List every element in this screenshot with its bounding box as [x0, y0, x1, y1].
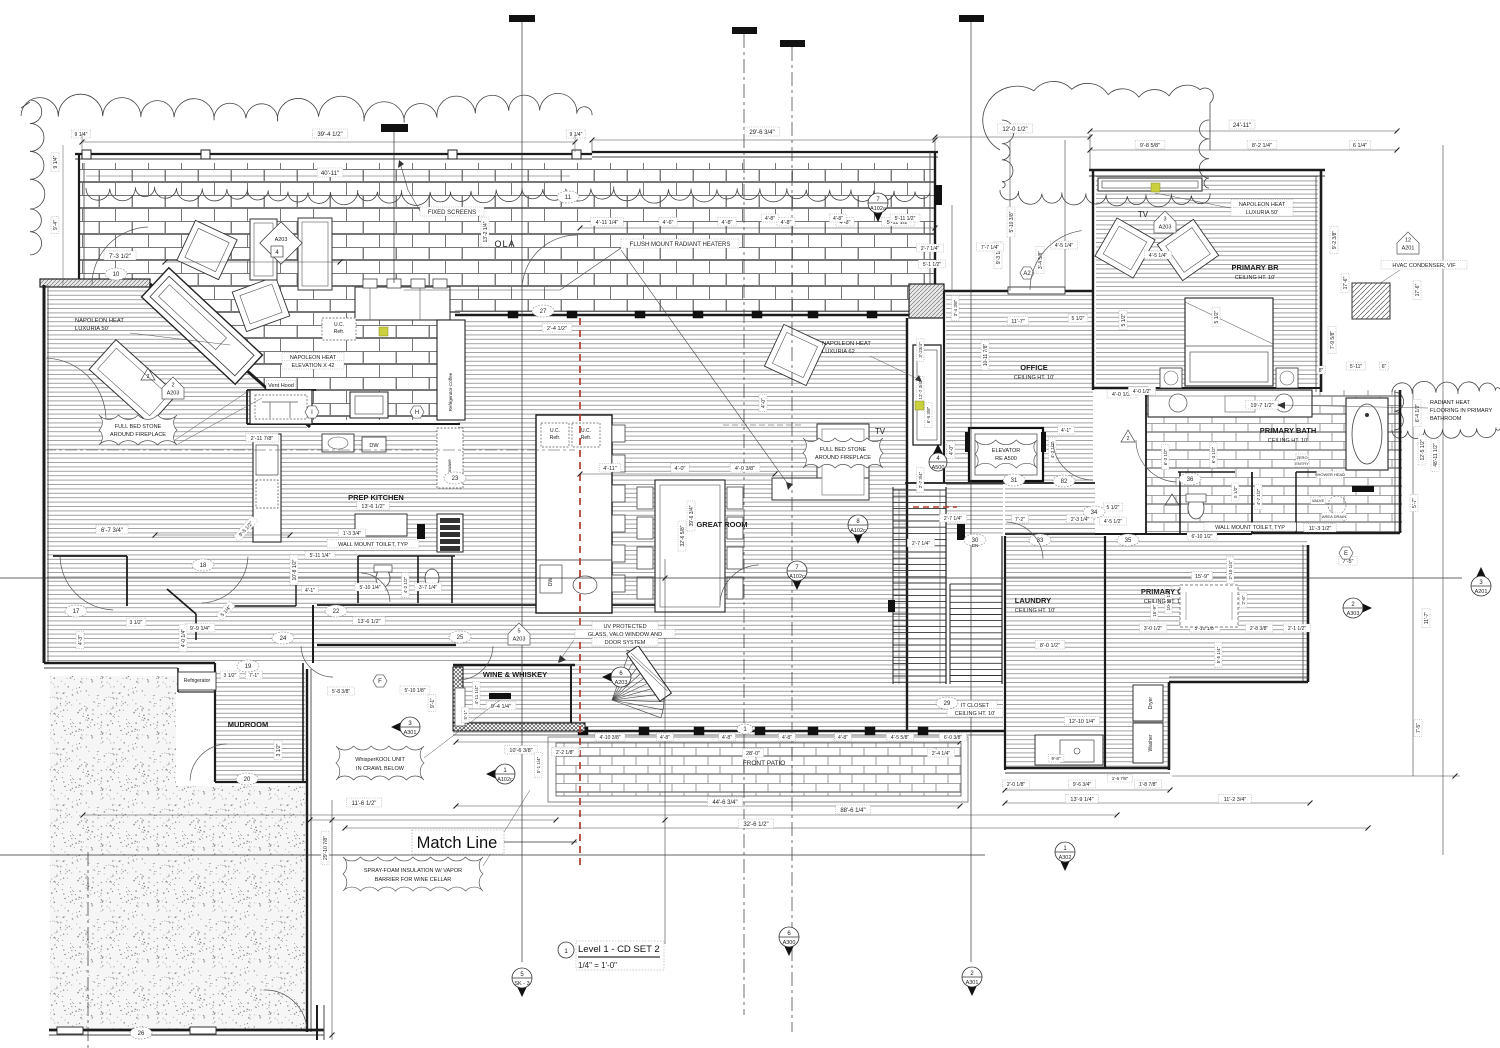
great room south window wall	[453, 730, 1005, 733]
closet south wall	[1169, 681, 1308, 684]
svg-text:4'-3": 4'-3"	[78, 635, 84, 645]
svg-text:FRONT PATIO: FRONT PATIO	[743, 760, 786, 767]
left wing west wall	[43, 285, 46, 663]
section cut bar x394	[381, 124, 408, 132]
svg-text:A300: A300	[783, 940, 796, 946]
grid line y855	[0, 854, 985, 856]
svg-text:7'-3 1/2": 7'-3 1/2"	[109, 254, 131, 260]
cloud full bed stone greatroom	[803, 438, 883, 468]
svg-text:2'-7 1/4": 2'-7 1/4"	[921, 246, 940, 252]
svg-text:3'-4 5/8": 3'-4 5/8"	[1038, 251, 1044, 270]
note fixed screens	[420, 207, 484, 216]
left wing closet walls	[53, 555, 127, 557]
toilets left wing	[376, 569, 390, 587]
great room east wall	[906, 318, 908, 731]
svg-text:3 1/2": 3 1/2"	[276, 743, 282, 756]
bed	[1185, 298, 1273, 386]
primary bedroom chairs	[1095, 218, 1155, 278]
svg-text:9'-9 1/4": 9'-9 1/4"	[190, 626, 210, 632]
OLA lounge chair 1	[177, 220, 237, 279]
svg-text:5 1/2": 5 1/2"	[1233, 486, 1238, 498]
svg-text:1/4" = 1'-0": 1/4" = 1'-0"	[578, 961, 617, 970]
svg-text:A301: A301	[404, 730, 417, 736]
left wing south wall	[44, 662, 215, 665]
svg-text:RE A500: RE A500	[995, 456, 1017, 462]
svg-text:6'-0 3/8": 6'-0 3/8"	[944, 735, 963, 741]
tag pentagon A203 wine	[508, 623, 530, 645]
svg-text:WINE & WHISKEY: WINE & WHISKEY	[483, 670, 547, 679]
long dims bottom	[456, 805, 960, 807]
OLA brick patio floor	[78, 163, 935, 420]
bath vanity	[1148, 390, 1312, 417]
south wall hatched band	[453, 725, 583, 732]
svg-text:3'-23/4": 3'-23/4"	[918, 342, 923, 358]
fireplace diagonal wall	[150, 284, 310, 427]
svg-text:RADIANT HEAT: RADIANT HEAT	[1430, 400, 1470, 406]
svg-text:29: 29	[944, 701, 951, 707]
svg-text:ENTRY: ENTRY	[1295, 461, 1309, 466]
svg-text:31: 31	[1011, 478, 1018, 484]
dims greatroom center	[599, 464, 620, 473]
svg-text:BATHROOM: BATHROOM	[1430, 416, 1462, 422]
front wall left segment	[317, 644, 456, 646]
wine room walls	[453, 664, 575, 666]
svg-text:15'-9": 15'-9"	[1195, 574, 1209, 580]
svg-text:LUXURIA 62: LUXURIA 62	[822, 349, 855, 355]
svg-text:OFFICE: OFFICE	[1020, 363, 1048, 372]
cloud full bed stone left	[99, 415, 177, 445]
hearth bench (rotated)	[89, 340, 177, 425]
door arc OLA east	[1030, 231, 1082, 290]
svg-text:8'-2 1/4": 8'-2 1/4"	[1252, 143, 1272, 149]
laundry/closet divider wall	[1104, 536, 1106, 768]
tag ovals	[105, 268, 127, 280]
sofa	[817, 424, 869, 500]
wine fan door	[612, 700, 661, 718]
office striped floor	[946, 293, 1093, 481]
svg-text:A303: A303	[1347, 611, 1360, 617]
dims hall	[327, 687, 354, 695]
vert dim line x332	[331, 800, 333, 1040]
door arc bath entry	[1136, 440, 1177, 482]
svg-text:CEILING HT. 10': CEILING HT. 10'	[1144, 599, 1184, 605]
bath west wall	[1145, 390, 1147, 534]
washer dryer	[1133, 685, 1163, 721]
svg-text:6'-3 1/2": 6'-3 1/2"	[1211, 446, 1216, 463]
dash-dot line y450 left	[44, 449, 575, 451]
svg-text:Vent Hood: Vent Hood	[268, 383, 294, 389]
svg-text:7'-9 5/8": 7'-9 5/8"	[1330, 331, 1336, 350]
front patio outer border	[548, 737, 968, 802]
svg-text:FIXED SCREENS: FIXED SCREENS	[428, 210, 476, 216]
laundry sink counter	[1035, 735, 1103, 765]
svg-text:GLASS, VALO WINDOW AND: GLASS, VALO WINDOW AND	[588, 632, 662, 638]
garage south wall	[49, 1029, 324, 1032]
svg-text:A102a: A102a	[870, 206, 887, 212]
svg-text:NAPOLEON HEAT: NAPOLEON HEAT	[290, 355, 337, 361]
svg-text:4'-0 3/8": 4'-0 3/8"	[735, 466, 755, 472]
fireplace left wing (rotated)	[142, 268, 263, 385]
svg-text:2: 2	[147, 374, 150, 380]
primary bath tile floor	[1146, 390, 1402, 532]
laundry south wall	[1005, 767, 1170, 770]
fridge/tall cabinet column	[437, 320, 465, 420]
tag hexagon A203 fan	[602, 669, 619, 685]
svg-text:NAPOLEON HEAT: NAPOLEON HEAT	[1239, 202, 1286, 208]
tag marker 5/SK-3	[514, 980, 530, 997]
svg-text:2'-7 1/4": 2'-7 1/4"	[912, 541, 931, 547]
svg-text:5'-10 1/4": 5'-10 1/4"	[359, 585, 380, 591]
svg-text:5'-5 1/4": 5'-5 1/4"	[1216, 646, 1221, 663]
dims left wing	[155, 534, 290, 536]
svg-text:19'-7 1/2": 19'-7 1/2"	[1250, 403, 1273, 409]
svg-text:H: H	[415, 410, 419, 416]
hall north wall	[317, 604, 660, 606]
svg-text:TV: TV	[875, 427, 886, 436]
svg-text:CEILING HT. 10': CEILING HT. 10'	[1014, 375, 1054, 381]
svg-text:6'-10 1/2": 6'-10 1/2"	[1191, 534, 1212, 540]
dash line y425 fireplace	[723, 424, 803, 426]
dims kitchen area	[246, 434, 279, 443]
svg-text:2'-3 1/4": 2'-3 1/4"	[1071, 517, 1090, 523]
door arc OLA right	[522, 235, 577, 288]
dims primary br	[1119, 310, 1127, 330]
svg-text:17'-6": 17'-6"	[1415, 283, 1421, 296]
svg-text:FLOORING IN PRIMARY: FLOORING IN PRIMARY	[1430, 408, 1493, 414]
svg-text:Match Line: Match Line	[417, 834, 498, 852]
svg-text:U.C.: U.C.	[581, 428, 591, 434]
kitchen north wall / counters	[247, 389, 316, 391]
dims toilet rooms	[305, 551, 335, 559]
dims south row	[456, 741, 960, 743]
svg-text:SHOWER HEAD: SHOWER HEAD	[1315, 472, 1345, 477]
dims laundry bottom	[1048, 755, 1064, 763]
dims right edge verticals	[1442, 145, 1444, 855]
svg-text:24'-11": 24'-11"	[1233, 123, 1251, 129]
svg-text:MUDROOM: MUDROOM	[228, 720, 268, 729]
svg-text:4'-6": 4'-6"	[663, 220, 674, 226]
nightstands	[1160, 368, 1182, 388]
svg-text:9'-1": 9'-1"	[430, 698, 436, 708]
svg-text:5 1/2": 5 1/2"	[1214, 310, 1220, 323]
stair rails	[898, 490, 900, 684]
dim 29-6	[592, 139, 935, 141]
note flush mount radiant heaters	[621, 239, 739, 248]
svg-text:HVAC CONDENSER, VIF: HVAC CONDENSER, VIF	[1392, 263, 1456, 269]
svg-text:PREP KITCHEN: PREP KITCHEN	[348, 493, 404, 502]
svg-text:48'-11 1/2": 48'-11 1/2"	[1433, 443, 1439, 467]
svg-text:4'-1": 4'-1"	[1061, 428, 1071, 434]
svg-text:82: 82	[1061, 479, 1068, 485]
cloud whisperkool	[336, 746, 424, 780]
svg-text:F: F	[378, 679, 382, 685]
svg-text:2'-11 7/8": 2'-11 7/8"	[251, 436, 274, 442]
svg-text:4'-8": 4'-8"	[833, 216, 843, 222]
shower walls	[1295, 472, 1297, 533]
svg-text:Refr.: Refr.	[550, 435, 561, 441]
toilet room walls	[358, 555, 455, 557]
dining table	[655, 480, 725, 612]
svg-text:3: 3	[1163, 217, 1166, 223]
door arc laundry	[1006, 522, 1043, 559]
svg-text:2'-1 1/2": 2'-1 1/2"	[1288, 626, 1307, 632]
red dash segment stairs	[913, 506, 957, 508]
svg-text:4'-8": 4'-8"	[782, 735, 792, 741]
elevator door bars	[1041, 432, 1046, 452]
svg-text:2: 2	[171, 383, 174, 389]
svg-text:2'-6": 2'-6"	[1241, 595, 1246, 604]
svg-text:26: 26	[138, 1031, 145, 1037]
svg-text:35: 35	[1125, 538, 1132, 544]
svg-text:Refr.: Refr.	[581, 435, 592, 441]
svg-text:32'-6 5/8": 32'-6 5/8"	[680, 525, 686, 546]
svg-text:3'-4 3/8": 3'-4 3/8"	[953, 299, 958, 316]
yellow mark fireplace	[379, 327, 388, 336]
svg-text:AROUND FIREPLACE: AROUND FIREPLACE	[815, 455, 871, 461]
svg-text:5'-1": 5'-1"	[463, 710, 468, 719]
misc arcs left wing	[60, 557, 113, 610]
svg-text:12: 12	[1405, 238, 1411, 244]
svg-text:A301: A301	[966, 980, 979, 986]
svg-text:25: 25	[457, 635, 464, 641]
svg-text:4'-8": 4'-8"	[722, 220, 733, 226]
svg-text:A302: A302	[1059, 855, 1072, 861]
note napoleon heat luxuria 50 (BR)	[1231, 200, 1293, 209]
svg-text:8'-0 1/2": 8'-0 1/2"	[1040, 643, 1060, 649]
screen wall top (patio north)	[75, 153, 592, 155]
tag marker 3/A301	[391, 719, 408, 735]
svg-text:VALVE: VALVE	[1312, 498, 1325, 503]
svg-text:3 1/2": 3 1/2"	[224, 673, 237, 679]
OLA coffee table	[250, 219, 277, 280]
svg-text:A102c: A102c	[850, 528, 866, 534]
svg-text:2: 2	[1127, 436, 1130, 442]
kitchen sink small	[322, 434, 354, 452]
svg-text:NAPOLEON HEAT: NAPOLEON HEAT	[822, 341, 871, 347]
laundry striped floor	[1006, 536, 1105, 768]
svg-text:LUXURIA 50': LUXURIA 50'	[1246, 210, 1278, 216]
svg-text:3 1/2": 3 1/2"	[130, 620, 143, 626]
svg-text:9'-6 3/4": 9'-6 3/4"	[1073, 782, 1092, 788]
dim row OLA right	[580, 227, 935, 229]
svg-text:5 1/2": 5 1/2"	[1072, 316, 1085, 322]
svg-text:39'-4 1/2": 39'-4 1/2"	[317, 132, 342, 138]
TV niche	[1098, 178, 1202, 191]
A203 tag 4 (OLA)	[260, 222, 302, 264]
OLA bar counter	[355, 287, 450, 320]
kitchen sink counter	[350, 392, 388, 418]
svg-text:FULL BED STONE: FULL BED STONE	[115, 424, 162, 430]
svg-text:DW: DW	[548, 578, 554, 587]
yellow mark BR	[1151, 183, 1160, 192]
svg-text:12'-0 1/2": 12'-0 1/2"	[1002, 127, 1027, 133]
svg-text:Refrigerator-Coffee: Refrigerator-Coffee	[448, 372, 453, 411]
hall west wall	[943, 318, 945, 483]
closet island dashed	[1180, 585, 1238, 627]
svg-text:9'-2 3/8": 9'-2 3/8"	[1332, 231, 1338, 250]
svg-text:4'-5 5/8": 4'-5 5/8"	[891, 735, 910, 741]
bath south wall	[1252, 532, 1400, 535]
tree canopy blob top right	[983, 81, 1213, 150]
svg-text:9 1/4": 9 1/4"	[75, 132, 88, 138]
svg-text:27: 27	[540, 309, 547, 315]
svg-text:4'-7 1/2": 4'-7 1/2"	[1256, 488, 1261, 505]
svg-text:A2: A2	[1023, 271, 1031, 277]
svg-text:4'-1": 4'-1"	[305, 588, 315, 594]
left wing striped floor	[47, 285, 458, 663]
shower bench black	[1352, 486, 1374, 492]
svg-text:7'-5": 7'-5"	[1343, 559, 1354, 565]
primary bedroom walls	[1089, 169, 1325, 172]
dim top patio	[82, 141, 575, 143]
primary bedroom striped floor	[1096, 174, 1318, 388]
svg-text:Refrigerator: Refrigerator	[184, 678, 211, 684]
dims BR bottom	[1128, 387, 1155, 395]
svg-text:IT CLOSET: IT CLOSET	[961, 703, 990, 709]
svg-text:A203: A203	[615, 680, 628, 686]
tag marker 2/A303	[1355, 600, 1372, 616]
tag hexagons	[305, 406, 319, 418]
wine rack bar	[489, 693, 511, 699]
left wing north wall	[40, 279, 150, 287]
svg-text:4'-0": 4'-0"	[675, 466, 686, 472]
svg-text:4'-5 1/4": 4'-5 1/4"	[1055, 243, 1074, 249]
svg-text:10: 10	[113, 272, 120, 278]
svg-text:3'-7 1/4": 3'-7 1/4"	[419, 585, 438, 591]
svg-text:7'-2": 7'-2"	[1015, 517, 1025, 523]
svg-text:11'-7": 11'-7"	[1424, 612, 1430, 625]
svg-text:DOOR SYSTEM: DOOR SYSTEM	[605, 640, 646, 646]
svg-text:WALL MOUNT TOILET, TYP: WALL MOUNT TOILET, TYP	[1215, 525, 1285, 531]
svg-text:10'-8 1/2": 10'-8 1/2"	[292, 559, 298, 580]
door arc office	[1053, 441, 1093, 480]
shower drain	[1328, 496, 1346, 514]
svg-text:IN CRAWL BELOW: IN CRAWL BELOW	[356, 766, 405, 772]
svg-text:A203: A203	[275, 237, 288, 243]
svg-text:6'-4 1/2": 6'-4 1/2"	[1415, 404, 1421, 423]
vert dim line x665	[664, 559, 666, 944]
svg-text:A102c: A102c	[497, 777, 513, 783]
svg-text:88'-6 1/4": 88'-6 1/4"	[840, 808, 865, 814]
screen wall posts	[82, 150, 91, 159]
svg-text:CEILING HT. 10': CEILING HT. 10'	[955, 711, 995, 717]
note uv protected	[592, 622, 658, 631]
svg-text:NAPOLEON HEAT: NAPOLEON HEAT	[75, 318, 124, 324]
svg-text:5'-11 1/4": 5'-11 1/4"	[310, 553, 331, 559]
svg-text:6 1/4": 6 1/4"	[1353, 143, 1367, 149]
svg-text:4'-5 1/4": 4'-5 1/4"	[1149, 253, 1168, 259]
svg-text:9'-8 5/8": 9'-8 5/8"	[1140, 143, 1160, 149]
svg-text:A201: A201	[1475, 589, 1488, 595]
laundry west wall	[1004, 536, 1006, 770]
title: level 1	[558, 942, 574, 958]
tag marker 8/A102c	[850, 527, 866, 544]
svg-text:ELEVATOR: ELEVATOR	[992, 448, 1020, 454]
svg-text:PRIMARY BATH: PRIMARY BATH	[1260, 426, 1317, 435]
svg-text:23: 23	[452, 476, 459, 482]
svg-text:Refr.: Refr.	[334, 329, 345, 335]
svg-text:17: 17	[73, 609, 80, 615]
tag pentagon A203 prep	[162, 377, 184, 399]
svg-text:FLUSH MOUNT RADIANT HEATERS: FLUSH MOUNT RADIANT HEATERS	[630, 242, 731, 248]
hvac condenser pad	[1352, 283, 1390, 319]
svg-text:4'-5 1/2": 4'-5 1/2"	[1104, 519, 1123, 525]
stair hall striped floor	[946, 320, 1003, 535]
svg-text:4'-8": 4'-8"	[722, 735, 732, 741]
tag marker 2/A301	[964, 979, 980, 996]
hall striped floor	[315, 607, 460, 661]
svg-text:12'-5 1/2": 12'-5 1/2"	[1420, 439, 1426, 460]
tree blob right middle	[1392, 381, 1500, 393]
svg-text:13'-9 1/4": 13'-9 1/4"	[1070, 797, 1093, 803]
black wall post x938	[934, 185, 942, 205]
svg-text:11: 11	[565, 195, 572, 201]
svg-text:13'-6 1/2": 13'-6 1/2"	[361, 504, 384, 510]
svg-text:11'-2 3/4": 11'-2 3/4"	[1224, 797, 1247, 803]
svg-text:10-11 7/8": 10-11 7/8"	[983, 344, 989, 367]
tag marker 1/A102c	[486, 766, 503, 782]
bath/closet divider wall	[1095, 533, 1252, 535]
svg-text:GREAT ROOM: GREAT ROOM	[696, 520, 747, 529]
svg-text:4'-11 1/4": 4'-11 1/4"	[474, 685, 479, 704]
svg-text:2'-7 1/4": 2'-7 1/4"	[944, 516, 963, 522]
svg-text:Dryer: Dryer	[1148, 697, 1154, 710]
svg-text:28'-0": 28'-0"	[746, 751, 760, 757]
svg-text:2'-8 3/8": 2'-8 3/8"	[1250, 626, 1269, 632]
DW box	[362, 437, 386, 452]
room label it closet	[953, 701, 997, 710]
svg-text:5'-1 1/2": 5'-1 1/2"	[923, 262, 942, 268]
svg-text:A500: A500	[932, 465, 945, 471]
svg-text:9'-8": 9'-8"	[1052, 756, 1061, 761]
svg-text:1'-8 7/8": 1'-8 7/8"	[1139, 782, 1158, 788]
svg-text:4'-8": 4'-8"	[781, 220, 792, 226]
left rotated dims	[51, 152, 59, 172]
primary closet striped floor	[1105, 538, 1307, 679]
black post hall	[417, 524, 425, 539]
svg-text:5'-11": 5'-11"	[1350, 364, 1363, 370]
svg-text:34: 34	[1091, 510, 1098, 516]
dims wine room	[486, 702, 516, 711]
corner wall block office NW	[909, 284, 944, 318]
svg-text:FULL BED STONE: FULL BED STONE	[820, 447, 867, 453]
svg-text:SK - 3: SK - 3	[514, 981, 529, 987]
match line text	[412, 830, 504, 854]
svg-text:32'-6 1/2": 32'-6 1/2"	[743, 822, 768, 828]
svg-text:2'-7 3/4": 2'-7 3/4"	[918, 471, 923, 488]
svg-text:5: 5	[517, 629, 520, 635]
svg-text:Level 1 - CD SET 2: Level 1 - CD SET 2	[578, 944, 660, 955]
svg-text:BARRIER FOR WINE CELLAR: BARRIER FOR WINE CELLAR	[375, 877, 451, 883]
svg-text:CEILING HT. 10': CEILING HT. 10'	[1235, 275, 1275, 281]
svg-text:9 1/4": 9 1/4"	[53, 155, 59, 168]
svg-text:4'-10 3/8": 4'-10 3/8"	[599, 735, 620, 741]
section cut line x972	[959, 15, 984, 22]
svg-text:4'-11": 4'-11"	[603, 466, 617, 472]
svg-text:1'-3 3/4": 1'-3 3/4"	[343, 531, 362, 537]
svg-text:AREA DRAIN: AREA DRAIN	[1322, 514, 1346, 519]
svg-text:6'-9 3/8": 6'-9 3/8"	[926, 406, 931, 423]
svg-text:2'-4 1/4": 2'-4 1/4"	[932, 751, 951, 757]
svg-text:2'-0 1/8": 2'-0 1/8"	[1007, 782, 1026, 788]
tag marker 6/A300	[781, 939, 797, 956]
patio west wall	[78, 154, 80, 286]
dim 24-11	[1090, 130, 1397, 132]
svg-text:A203: A203	[513, 637, 526, 643]
door arc patio left	[92, 227, 148, 285]
svg-text:39'-6 3/4": 39'-6 3/4"	[689, 505, 695, 526]
OLA south wall w/ window posts	[455, 314, 938, 317]
